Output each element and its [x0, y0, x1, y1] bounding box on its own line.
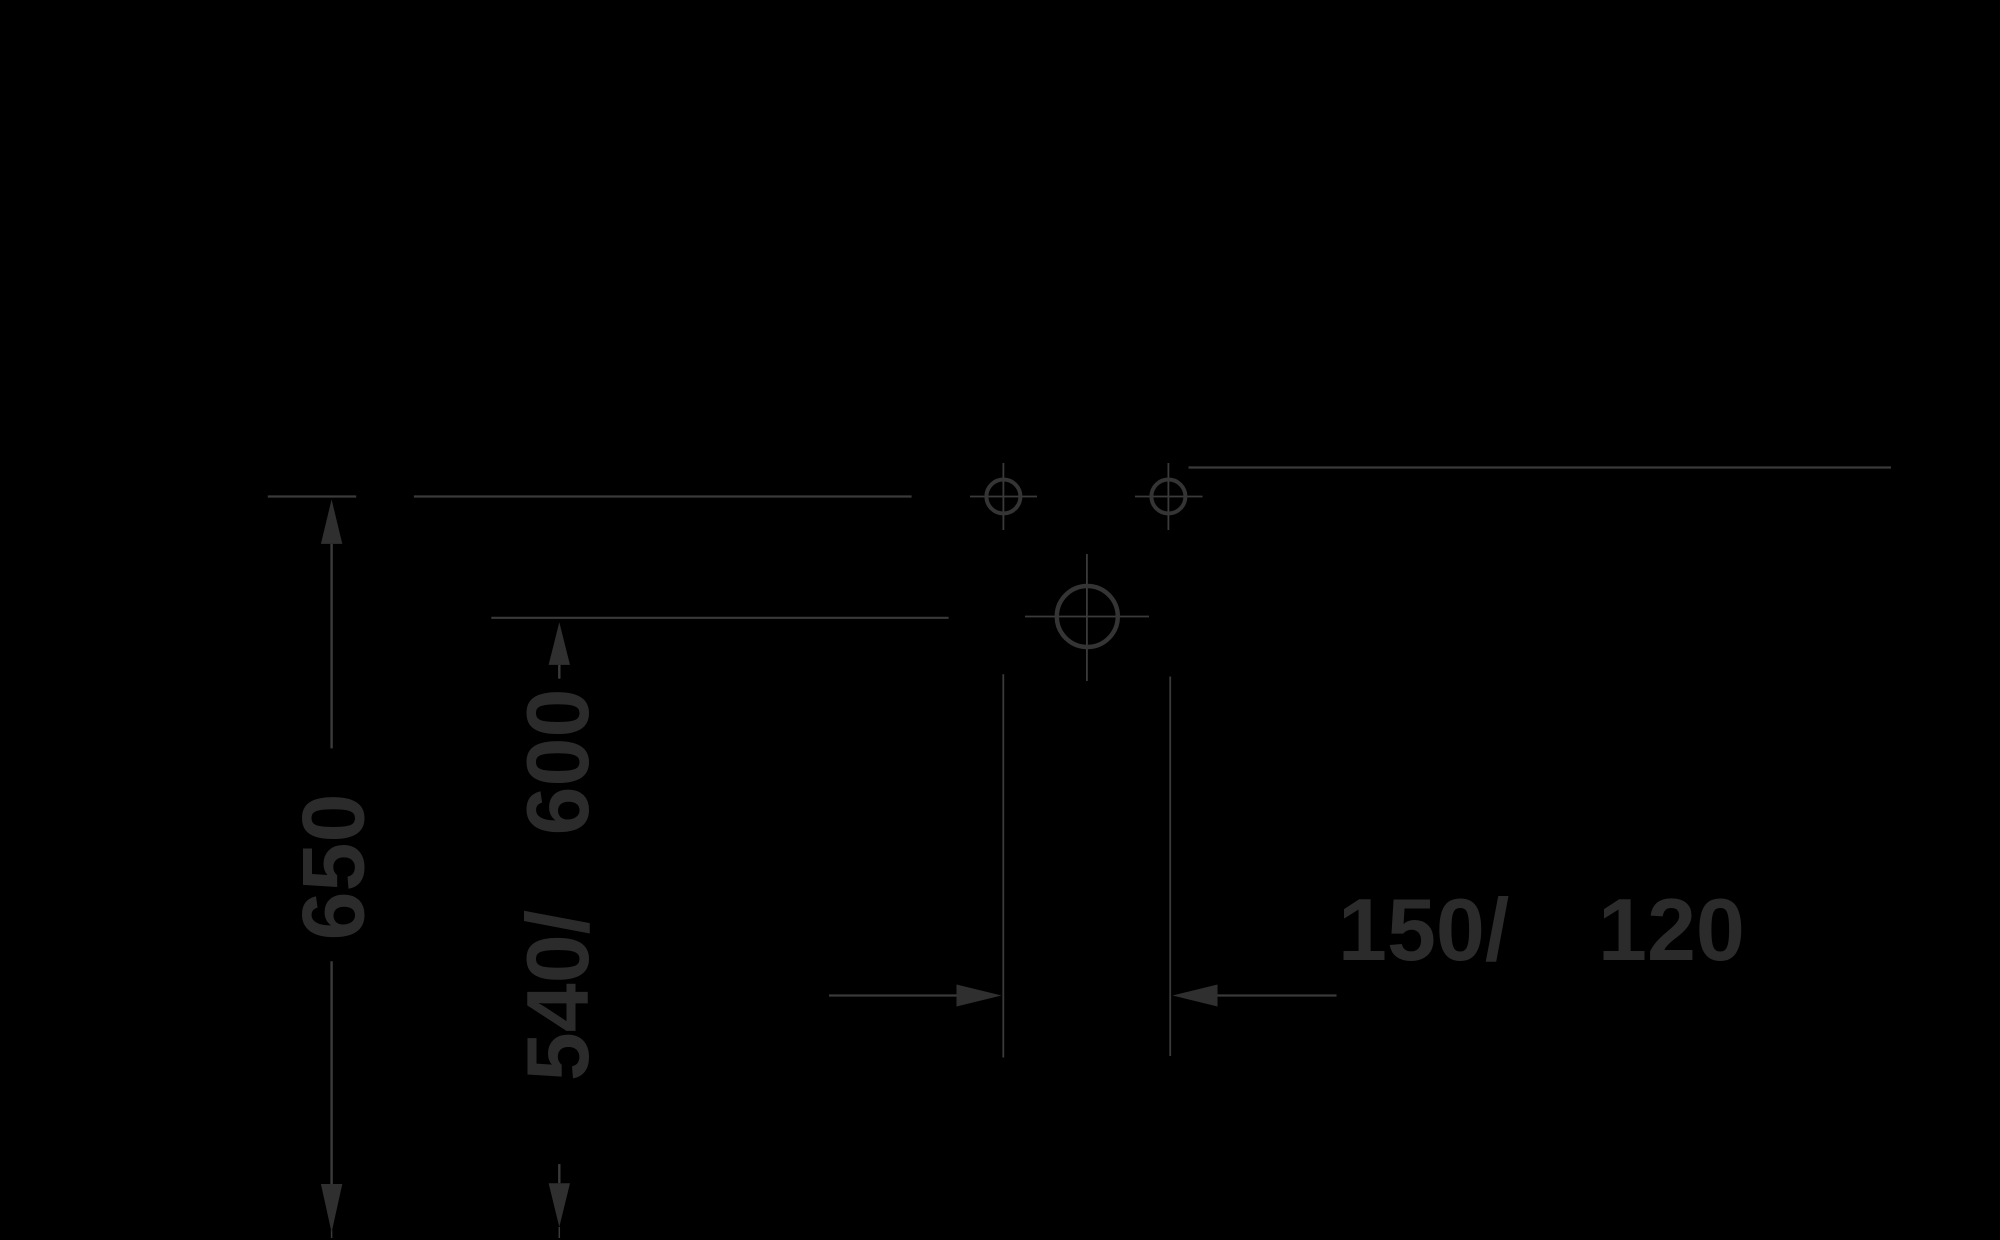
hole circle B: [1151, 480, 1185, 514]
arrowhead down of 650 dimension: [321, 1184, 342, 1233]
svg-text:120: 120: [1598, 880, 1745, 979]
dimension line 540/600 hairline below arrow: [558, 1227, 560, 1238]
wire: extension line upper: [414, 495, 912, 497]
hole circle A crosshair vertical: [1002, 463, 1004, 530]
hole circle C crosshair vertical: [1086, 554, 1088, 681]
leader line left of width dimension: [829, 994, 958, 996]
svg-text:650: 650: [284, 794, 383, 941]
dimension line 650 hairline below arrow: [331, 1230, 333, 1238]
arrowhead up of 540/600 dimension: [549, 622, 570, 665]
dimension line 650 stem lower: [330, 961, 332, 1184]
vertical edge line right: [1169, 677, 1171, 1057]
vertical edge line left: [1002, 674, 1004, 1057]
wire: reference line top right: [1189, 466, 1892, 468]
dimension line 540/600 stem lower: [558, 1164, 560, 1183]
arrowhead up of 650 dimension: [321, 499, 342, 544]
hole circle C crosshair horizontal: [1025, 616, 1149, 618]
leader line right of width dimension: [1217, 994, 1337, 996]
dimension line 540/600 stem upper: [558, 665, 560, 679]
hole circle A crosshair horizontal: [970, 496, 1037, 498]
arrowhead right of width leader: [957, 985, 1002, 1007]
hole circle A: [986, 480, 1020, 514]
hole circle C: [1057, 586, 1118, 647]
hole circle B crosshair vertical: [1167, 463, 1169, 530]
arrowhead left of width leader: [1173, 985, 1218, 1007]
dimension line 650 stem upper: [330, 544, 332, 749]
svg-text:540/: 540/: [508, 910, 607, 1081]
hole circle B crosshair horizontal: [1135, 496, 1203, 498]
svg-text:150/: 150/: [1338, 880, 1509, 979]
svg-text:600: 600: [508, 689, 607, 836]
arrowhead down of 540/600 dimension: [549, 1183, 570, 1227]
wire: extension tick top-left: [268, 495, 356, 497]
wire: extension line middle: [491, 617, 948, 619]
